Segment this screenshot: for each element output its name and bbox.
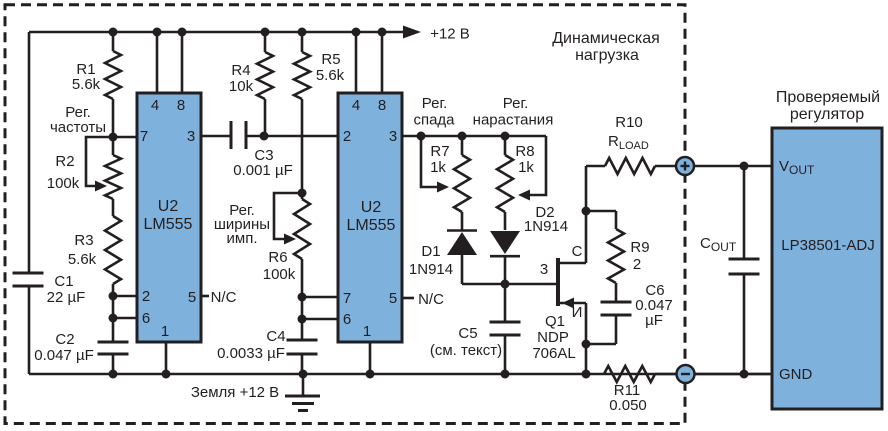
svg-text:LM555: LM555 [347, 217, 396, 234]
svg-text:R4: R4 [231, 62, 250, 79]
svg-text:D1: D1 [421, 243, 440, 260]
svg-text:6: 6 [343, 311, 351, 328]
svg-text:RLOAD: RLOAD [608, 133, 649, 152]
svg-text:7: 7 [140, 128, 148, 145]
svg-text:C2: C2 [55, 331, 74, 348]
svg-text:0.047 µF: 0.047 µF [34, 347, 94, 364]
svg-text:Динамическая: Динамическая [552, 30, 660, 47]
svg-text:R9: R9 [630, 239, 649, 256]
svg-text:8: 8 [378, 97, 386, 114]
svg-text:1: 1 [161, 323, 169, 340]
svg-text:3: 3 [389, 128, 397, 145]
svg-text:Земля +12 В: Земля +12 В [191, 384, 279, 401]
svg-text:5.6k: 5.6k [316, 67, 345, 84]
svg-text:5.6k: 5.6k [72, 76, 101, 93]
svg-text:7: 7 [343, 290, 351, 307]
svg-text:8: 8 [177, 97, 185, 114]
svg-text:(см. текст): (см. текст) [430, 342, 502, 359]
svg-text:C5: C5 [458, 325, 477, 342]
svg-text:Рег.: Рег. [422, 95, 448, 112]
svg-text:R7: R7 [430, 143, 449, 160]
svg-text:спада: спада [413, 112, 455, 129]
svg-text:имп.: имп. [227, 230, 258, 247]
svg-text:C1: C1 [54, 273, 73, 290]
svg-text:U2: U2 [158, 198, 179, 215]
svg-text:1N914: 1N914 [409, 261, 453, 278]
svg-text:4: 4 [151, 97, 159, 114]
svg-text:COUT: COUT [700, 235, 737, 254]
svg-text:0.0033 µF: 0.0033 µF [217, 345, 285, 362]
svg-text:R2: R2 [55, 153, 74, 170]
svg-text:6: 6 [142, 310, 150, 327]
svg-text:C4: C4 [266, 328, 285, 345]
svg-text:10k: 10k [229, 78, 254, 95]
svg-text:R6: R6 [268, 249, 287, 266]
svg-text:5: 5 [389, 290, 397, 307]
svg-text:GND: GND [779, 366, 813, 383]
svg-text:регулятор: регулятор [790, 106, 864, 123]
svg-text:R5: R5 [321, 51, 340, 68]
svg-text:0.001 µF: 0.001 µF [233, 162, 293, 179]
svg-text:5.6k: 5.6k [68, 251, 97, 268]
svg-text:R8: R8 [515, 143, 534, 160]
svg-text:100k: 100k [47, 175, 80, 192]
svg-text:нарастания: нарастания [473, 112, 554, 129]
svg-text:NDP: NDP [537, 329, 569, 346]
svg-text:706AL: 706AL [532, 345, 575, 362]
svg-text:нагрузка: нагрузка [575, 47, 639, 64]
svg-text:5: 5 [188, 289, 196, 306]
svg-text:2: 2 [343, 128, 351, 145]
svg-text:0.050: 0.050 [609, 397, 647, 414]
svg-text:2: 2 [633, 256, 641, 273]
svg-text:+12 В: +12 В [430, 26, 470, 43]
svg-text:µF: µF [645, 312, 663, 329]
svg-text:100k: 100k [263, 266, 296, 283]
svg-text:C: C [572, 243, 583, 260]
svg-text:частоты: частоты [50, 119, 106, 136]
svg-text:LP38501-ADJ: LP38501-ADJ [781, 237, 874, 254]
svg-text:1k: 1k [518, 159, 534, 176]
svg-text:1N914: 1N914 [524, 218, 568, 235]
svg-text:3: 3 [187, 128, 195, 145]
svg-text:1k: 1k [430, 159, 446, 176]
svg-text:Q1: Q1 [545, 313, 565, 330]
svg-text:И: И [572, 304, 583, 321]
svg-text:3: 3 [540, 261, 548, 278]
svg-text:4: 4 [352, 97, 360, 114]
svg-text:N/C: N/C [211, 289, 237, 306]
svg-text:R10: R10 [615, 114, 643, 131]
svg-text:22 µF: 22 µF [47, 289, 86, 306]
svg-text:U2: U2 [361, 199, 382, 216]
svg-text:2: 2 [142, 288, 150, 305]
svg-text:LM555: LM555 [144, 216, 193, 233]
svg-text:1: 1 [363, 323, 371, 340]
svg-text:R3: R3 [74, 232, 93, 249]
svg-text:N/C: N/C [418, 291, 444, 308]
svg-text:Рег.: Рег. [503, 95, 529, 112]
svg-text:Проверяемый: Проверяемый [776, 89, 880, 106]
